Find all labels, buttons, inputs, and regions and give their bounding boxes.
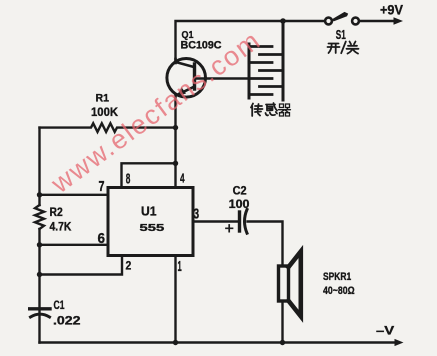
wire pin8 branch <box>122 163 176 187</box>
svg-text:.022: .022 <box>53 316 81 328</box>
label 555 <box>140 222 165 234</box>
label Q1 <box>182 30 194 41</box>
label R2 <box>50 207 63 219</box>
label pin 4 <box>180 172 185 186</box>
svg-text:3: 3 <box>194 206 200 223</box>
sensor electrodes <box>249 21 283 100</box>
svg-text:R2: R2 <box>50 207 63 219</box>
wire pin2 <box>40 256 123 275</box>
op-amp U1 555 IC box <box>108 188 193 256</box>
svg-text:100: 100 <box>229 199 250 211</box>
capacitor C1 <box>30 309 50 317</box>
capacitor C2 <box>226 210 247 234</box>
label pin 8 <box>126 171 131 188</box>
label -V <box>376 324 394 338</box>
svg-text:4.7K: 4.7K <box>50 222 72 234</box>
label U1 <box>141 205 157 219</box>
label BC109C <box>181 40 222 52</box>
svg-text:100K: 100K <box>91 105 118 119</box>
label 100K <box>91 105 118 119</box>
svg-text:U1: U1 <box>141 205 157 219</box>
node sensor-rail junction <box>280 18 286 24</box>
wire top rail <box>176 21 326 59</box>
svg-text:4: 4 <box>180 172 185 186</box>
wire pin6 <box>40 244 109 246</box>
label C2 <box>233 185 247 197</box>
wire base of Q1 to sensor <box>195 77 250 79</box>
wire bottom rail <box>40 339 404 346</box>
svg-text:S1: S1 <box>336 28 346 42</box>
label S1 <box>336 28 346 42</box>
transistor Q1 <box>167 59 206 98</box>
svg-text:R1: R1 <box>96 93 110 105</box>
switch S1 <box>325 12 359 25</box>
svg-text:7: 7 <box>99 179 105 195</box>
svg-text:C2: C2 <box>233 185 247 197</box>
label C1 <box>54 298 65 312</box>
svg-text:6: 6 <box>98 230 106 247</box>
node pin1-rail junction <box>173 340 178 345</box>
watermark www.elecfans.com <box>45 25 267 200</box>
wire left vertical lower <box>38 229 40 343</box>
label pin 6 <box>98 230 106 247</box>
svg-text:–V: –V <box>376 324 394 338</box>
wire pin3 to C2 <box>193 220 238 222</box>
wire Q1 emitter down to IC pin 4 <box>174 96 176 188</box>
label pin 1 <box>178 258 182 275</box>
svg-text:SPKR1: SPKR1 <box>323 271 351 283</box>
node pin8 branch junction <box>173 161 178 166</box>
label R1 <box>96 93 110 105</box>
label +9V <box>380 3 403 18</box>
label 40-80ohm <box>323 285 355 297</box>
resistor R2 <box>35 205 44 229</box>
label pin 2 <box>126 259 132 273</box>
wire pin7 <box>40 194 109 196</box>
label SPKR1 <box>323 271 351 283</box>
resistor R1 <box>40 123 176 132</box>
node speaker-rail junction <box>280 340 285 345</box>
speaker SPKR1 <box>279 252 301 317</box>
label pin 3 <box>194 206 200 223</box>
svg-text:www.elecfans.com: www.elecfans.com <box>45 25 267 200</box>
label 100 <box>229 199 250 211</box>
node pin6 junction <box>37 242 42 247</box>
svg-text:1: 1 <box>178 258 182 275</box>
svg-text:2: 2 <box>126 259 132 273</box>
svg-text:+9V: +9V <box>380 3 403 18</box>
label 开/关 <box>328 42 359 54</box>
wire C2 to speaker <box>248 222 283 267</box>
svg-text:C1: C1 <box>54 298 65 312</box>
wire pin1 to rail <box>174 256 176 343</box>
label 传感器 <box>251 103 291 116</box>
node R1-emitter junction <box>173 125 178 130</box>
wire speaker to rail <box>281 301 283 343</box>
wire +9V arrow <box>360 17 404 25</box>
label 4.7K <box>50 222 72 234</box>
label pin 7 <box>99 179 105 195</box>
node pin2 junction <box>37 272 42 277</box>
svg-text:555: 555 <box>140 222 165 234</box>
node pin7 junction <box>37 192 42 197</box>
label .022 <box>53 316 81 328</box>
svg-text:8: 8 <box>126 171 131 188</box>
wire left vertical <box>38 128 40 205</box>
svg-text:40~80Ω: 40~80Ω <box>323 285 355 297</box>
